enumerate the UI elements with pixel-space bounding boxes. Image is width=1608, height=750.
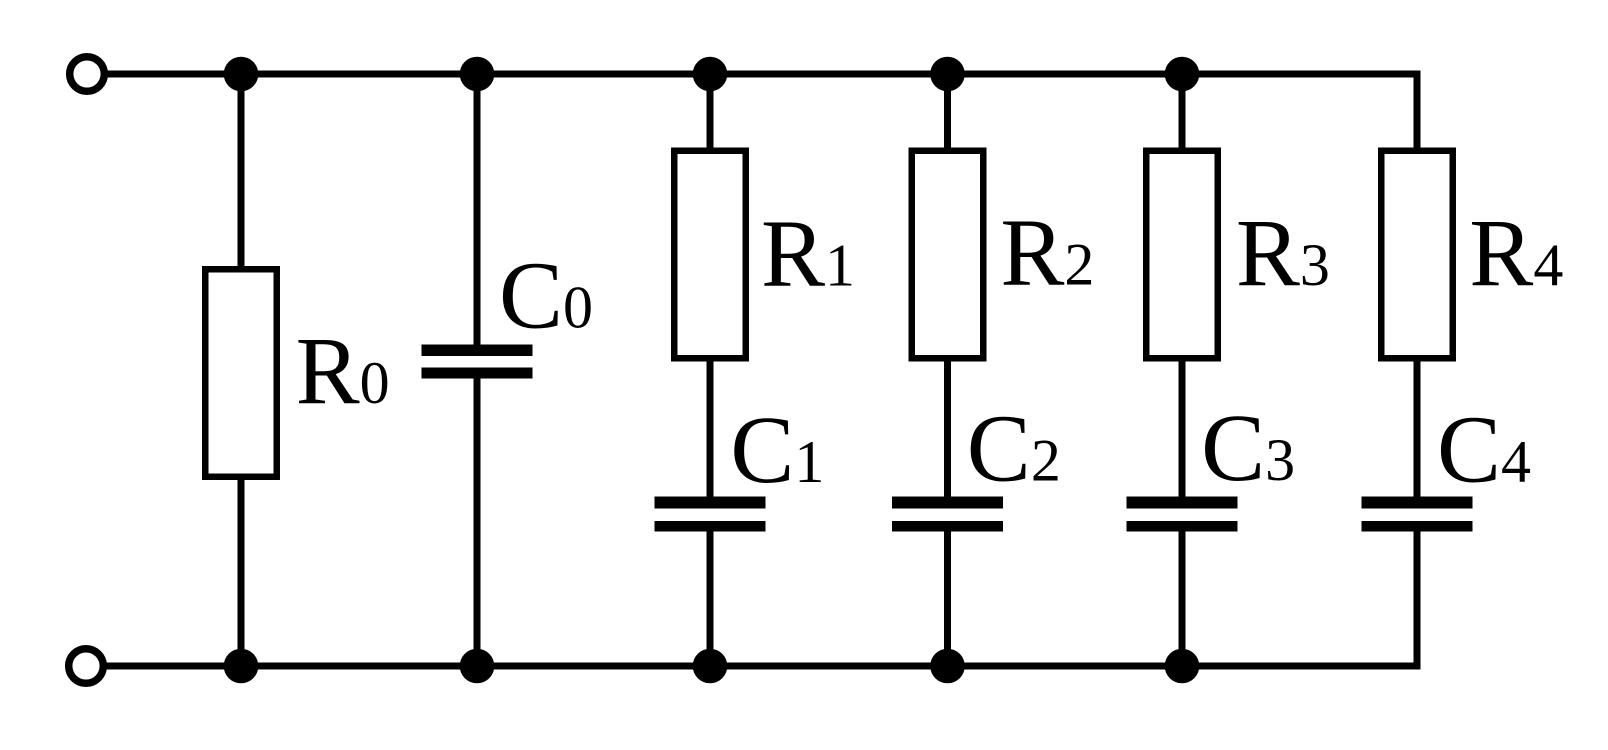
- wire from top rail to C0: [474, 74, 481, 345]
- node junction bottom rail at R0 branch: [224, 649, 259, 684]
- wire from C2 to bottom rail: [944, 530, 951, 666]
- wire from top rail to R0: [238, 74, 245, 269]
- wire from R2 to C2: [944, 358, 951, 497]
- capacitor C4 bottom plate: [1362, 521, 1473, 532]
- resistor R0 body: [205, 269, 277, 477]
- node junction top rail at R2 branch: [930, 57, 965, 92]
- wire from top rail to R1: [707, 74, 714, 150]
- wire top rail: [104, 71, 1421, 78]
- resistor R1 body: [674, 151, 746, 359]
- capacitor C1 top plate: [655, 497, 766, 509]
- node junction bottom rail at C1 branch: [693, 649, 728, 684]
- capacitor C0 top plate: [422, 345, 533, 357]
- node junction top rail at R1 branch: [693, 57, 728, 92]
- capacitor C0 bottom plate: [422, 368, 533, 379]
- wire from C3 to bottom rail: [1179, 530, 1186, 666]
- resistor R2 body: [912, 151, 984, 359]
- wire from R0 to bottom rail: [238, 477, 245, 666]
- capacitor C2 top plate: [892, 497, 1003, 509]
- capacitor C3 top plate: [1127, 497, 1238, 509]
- node junction bottom rail at C3 branch: [1165, 649, 1200, 684]
- wire from R4 to C4: [1414, 358, 1421, 497]
- capacitor C4 top plate: [1362, 497, 1473, 509]
- node junction top rail at R0 branch: [224, 57, 259, 92]
- capacitor C1 bottom plate: [655, 521, 766, 532]
- wire from top rail to R3: [1179, 74, 1186, 150]
- wire from R3 to C3: [1179, 358, 1186, 497]
- terminal (open circle) bottom-left: [69, 649, 104, 684]
- wire from C1 to bottom rail: [707, 530, 714, 666]
- node junction bottom rail at C0 branch: [460, 649, 495, 684]
- capacitor C2 bottom plate: [892, 521, 1003, 532]
- wire bottom rail: [103, 663, 1421, 670]
- resistor R4 body: [1381, 151, 1453, 359]
- terminal (open circle) top-left: [70, 57, 105, 92]
- node junction bottom rail at C2 branch: [930, 649, 965, 684]
- wire from top rail corner down to R4: [1414, 71, 1421, 151]
- resistor R3 body: [1146, 151, 1218, 359]
- capacitor C3 bottom plate: [1127, 521, 1238, 532]
- wire from C4 to bottom rail corner: [1414, 530, 1421, 670]
- node junction top rail at R3 branch: [1165, 57, 1200, 92]
- wire from top rail to R2: [944, 74, 951, 150]
- wire from R1 to C1: [707, 358, 714, 497]
- node junction top rail at C0 branch: [460, 57, 495, 92]
- wire from C0 to bottom rail: [474, 378, 481, 666]
